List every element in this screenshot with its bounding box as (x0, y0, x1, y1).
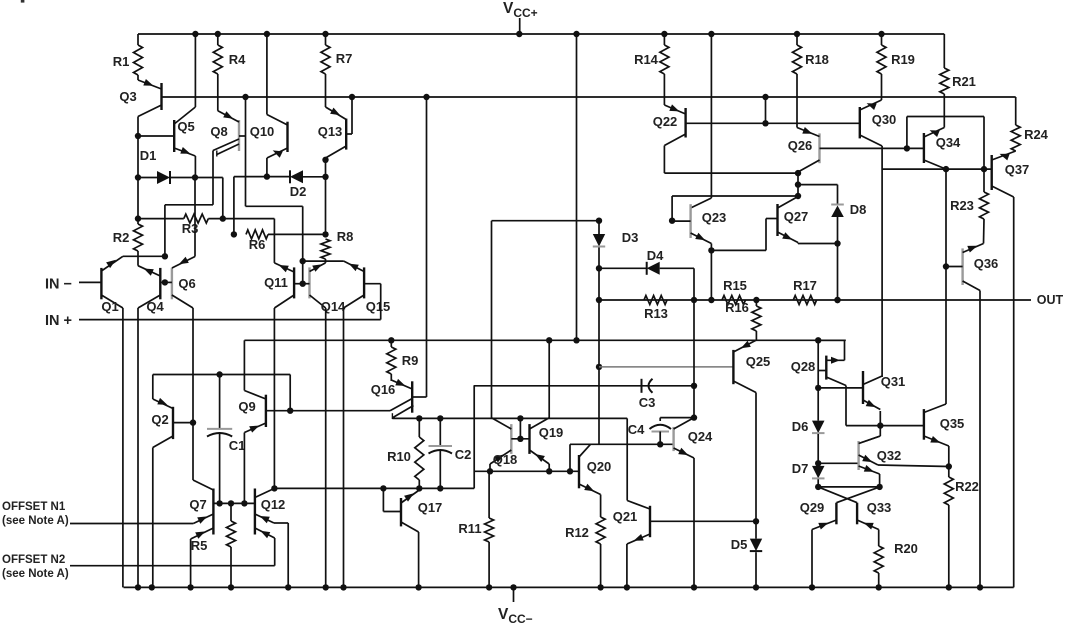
svg-text:C4: C4 (628, 422, 645, 437)
svg-text:R2: R2 (113, 230, 130, 245)
svg-text:R16: R16 (725, 300, 749, 315)
pin IN+ (45, 313, 381, 329)
transistor Q34 (907, 128, 961, 170)
node bottom rail junctions (135, 584, 983, 590)
transistor Q9 (238, 340, 266, 503)
svg-text:R18: R18 (805, 52, 829, 67)
svg-text:R23: R23 (950, 198, 974, 213)
node D6-D7 (815, 460, 821, 466)
wire VCC+ top rail (138, 33, 944, 35)
resistor R11 (458, 471, 493, 587)
transistor Q17 (380, 485, 442, 532)
wire Q13 collector column (322, 157, 328, 235)
diode D4 (599, 248, 694, 275)
wire Q18 emitter line (474, 468, 579, 474)
wire Q21 base to D5 node (650, 520, 757, 522)
svg-text:Q2: Q2 (151, 412, 168, 427)
wire Q24 base line (599, 443, 674, 445)
node D2 cathode (322, 174, 328, 180)
resistor R7 (321, 34, 352, 74)
svg-text:R14: R14 (634, 52, 659, 67)
svg-text:R12: R12 (565, 525, 589, 540)
transistor Q30 (860, 74, 896, 146)
svg-text:Q8: Q8 (210, 124, 227, 139)
wire Q26 base line (820, 147, 907, 149)
resistor R24 (1011, 97, 1048, 151)
wire Q11 collector (273, 308, 275, 488)
svg-text:Q25: Q25 (746, 354, 771, 369)
svg-text:Q16: Q16 (371, 382, 396, 397)
svg-text:R10: R10 (387, 449, 411, 464)
node D7 bottom (815, 484, 821, 490)
svg-text:Q20: Q20 (587, 459, 612, 474)
wire D4 corner to out line (693, 268, 695, 300)
wire Q8 collector jog to Q4-Q6 bases (165, 151, 213, 257)
resistor R23 (950, 169, 988, 243)
node D1 anode (135, 174, 141, 180)
svg-text:Q18: Q18 (493, 452, 518, 467)
transistor Q24 (674, 418, 713, 458)
transistor Q11 (264, 263, 294, 308)
svg-text:Q37: Q37 (1005, 162, 1030, 177)
transistor Q21 (613, 418, 650, 587)
transistor Q2 (151, 375, 173, 448)
wire Q23 emitter node (708, 244, 714, 301)
resistor R8 (321, 229, 353, 263)
transistor Q29 (800, 500, 837, 530)
diode D2 (234, 170, 326, 199)
node R17 right (834, 297, 840, 303)
wire Q37 base line (882, 166, 992, 172)
wire Q16 base to rail (426, 97, 428, 397)
resistor R18 (793, 34, 829, 74)
node top rail junctions (192, 31, 885, 37)
svg-text:Q31: Q31 (881, 374, 906, 389)
wire D2 branch to R6 (231, 177, 237, 238)
node Q11-Q14 bases (294, 258, 309, 287)
node Q36 base (943, 169, 949, 404)
wire Q27 base link (711, 219, 777, 251)
node Q11-Q12 collectors (271, 485, 277, 491)
svg-text:R4: R4 (229, 52, 246, 67)
node C1 bottom (216, 500, 222, 506)
node R2-R3 junction (135, 215, 141, 221)
diode D3 (593, 221, 639, 269)
transistor Q27 (778, 197, 809, 243)
svg-text:Q15: Q15 (366, 299, 391, 314)
svg-text:C3: C3 (639, 395, 656, 410)
wire Q36 collector (979, 291, 981, 588)
node D4 anode (596, 265, 602, 271)
node base rail junctions (242, 94, 768, 100)
wire D3 chain down (598, 268, 600, 444)
transistor Q32 dual emitter (818, 436, 949, 487)
transistor Q6 (172, 178, 196, 309)
pin OFFSET N1 (2, 501, 193, 527)
resistor R20 (874, 530, 918, 588)
node Q23 base (669, 196, 798, 224)
svg-text:Q22: Q22 (653, 114, 678, 129)
svg-text:C1: C1 (229, 438, 246, 453)
transistor Q36 (946, 244, 998, 291)
wire Q25 collector to D5 (753, 393, 759, 525)
svg-text:OFFSET N2: OFFSET N2 (2, 554, 65, 566)
wire Q28 collector to Q35 base (846, 386, 924, 426)
svg-text:Q12: Q12 (261, 497, 286, 512)
svg-text:R6: R6 (249, 237, 266, 252)
resistor R5 (191, 500, 236, 587)
svg-text:Q36: Q36 (974, 256, 999, 271)
svg-text:R11: R11 (458, 521, 481, 536)
svg-text:R13: R13 (644, 306, 668, 321)
svg-text:Q4: Q4 (146, 299, 164, 314)
transistor Q28 (791, 340, 846, 388)
transistor Q10 (250, 34, 288, 177)
node R13 left (596, 297, 602, 303)
svg-text:OUT: OUT (1037, 293, 1064, 307)
node R13 right (691, 297, 697, 303)
capacitor C2 (429, 415, 472, 488)
pin VCC+ (503, 0, 538, 34)
transistor Q5 (138, 34, 195, 178)
svg-text:R20: R20 (894, 541, 918, 556)
transistor Q18 (490, 418, 517, 472)
resistor R12 (565, 495, 605, 588)
svg-text:R21: R21 (952, 74, 976, 89)
node R22 top (946, 446, 952, 470)
svg-text:Q14: Q14 (321, 299, 346, 314)
transistor Q4 (138, 266, 164, 314)
wire cross couple lines (818, 484, 883, 503)
svg-text:D2: D2 (290, 184, 307, 199)
wire Q7 collector from Q6 (193, 423, 213, 490)
svg-text:R22: R22 (955, 479, 979, 494)
pin VCC- (498, 587, 533, 626)
transistor Q33 (857, 500, 891, 530)
transistor Q14 (310, 263, 347, 314)
wire main bias line (244, 339, 845, 341)
resistor R22 (944, 467, 979, 588)
node C3 line right (691, 300, 697, 389)
svg-text:D3: D3 (622, 230, 639, 245)
svg-text:Q7: Q7 (189, 497, 206, 512)
transistor Q35 (924, 404, 964, 446)
transistor Q20 (579, 444, 611, 494)
resistor R13 (644, 296, 668, 322)
svg-text:Q30: Q30 (872, 112, 897, 127)
svg-text:Q19: Q19 (539, 425, 564, 440)
wire VCC- bottom rail (124, 586, 1014, 588)
wire D1 to R3 (220, 178, 226, 222)
wire Q4 collector (137, 308, 139, 587)
svg-text:Q21: Q21 (613, 509, 638, 524)
node Q28-D6 (815, 385, 821, 391)
wire R3 to Q11 emitter (273, 219, 275, 263)
svg-text:Q13: Q13 (318, 124, 343, 139)
wire base rail (163, 96, 1016, 98)
svg-text:Q27: Q27 (784, 209, 809, 224)
svg-text:D8: D8 (850, 202, 867, 217)
svg-text:C2: C2 (455, 447, 472, 462)
svg-text:Q11: Q11 (264, 275, 288, 290)
svg-text:Q33: Q33 (867, 500, 892, 515)
svg-text:OFFSET N1: OFFSET N1 (2, 501, 66, 513)
wire Q8 base to rail and Q11 bases (246, 97, 303, 261)
pin IN- (45, 277, 101, 293)
wire R13 to Q24 collector (691, 386, 697, 421)
wire Q15 collector (343, 308, 345, 587)
svg-text:D1: D1 (140, 148, 157, 163)
svg-text:D7: D7 (792, 461, 809, 476)
svg-text:R24: R24 (1024, 127, 1049, 142)
resistor R14 (634, 34, 669, 74)
wire output resistor line (599, 299, 1031, 301)
svg-text:Q5: Q5 (177, 119, 194, 134)
svg-text:R17: R17 (793, 278, 817, 293)
wire Q3 collector column (137, 117, 139, 219)
wire Q18 collector column (491, 221, 493, 418)
svg-text:IN −: IN − (45, 277, 72, 293)
transistor Q7 dual emitter (189, 489, 213, 588)
diode D5 (731, 521, 763, 587)
wire C3 line (474, 385, 694, 387)
wire Q14 collector (325, 308, 327, 587)
svg-text:Q24: Q24 (688, 429, 713, 444)
resistor R19 (877, 34, 915, 74)
wire Q22-Q30 base line (686, 97, 860, 127)
node D8 bottom (834, 240, 840, 303)
wire mirror output to Q17 (274, 487, 474, 489)
node Q4-Q6 bases (160, 279, 172, 285)
node D1 cathode (192, 174, 198, 180)
resistor R3 (138, 214, 274, 236)
svg-text:Q23: Q23 (702, 210, 727, 225)
wire Q31 emitter to Q32 collector (859, 411, 884, 444)
svg-text:R19: R19 (891, 52, 915, 67)
svg-text:(see Note A): (see Note A) (2, 568, 69, 580)
wire Q25 base line (599, 366, 733, 368)
transistor Q12 dual emitter (255, 488, 288, 587)
svg-text:Q34: Q34 (936, 135, 961, 150)
node R15 left (708, 297, 714, 303)
node Q18-Q19 bases (511, 415, 529, 442)
wire Q1 collector (122, 308, 124, 587)
wire Q17 collector (418, 532, 420, 587)
resistor R6 (246, 230, 326, 252)
svg-text:D6: D6 (792, 419, 809, 434)
transistor Q15 (344, 261, 391, 314)
resistor R21 (940, 34, 976, 128)
svg-text:Q35: Q35 (940, 416, 965, 431)
wire Q23 collector to rail (691, 34, 712, 208)
wire Q2-C1-Q9 top link (153, 371, 290, 377)
svg-text:Q28: Q28 (791, 359, 816, 374)
transistor Q1 (101, 256, 123, 314)
svg-text:R1: R1 (113, 54, 130, 69)
svg-text:R8: R8 (337, 229, 354, 244)
svg-text:IN +: IN + (45, 313, 72, 329)
transistor Q22 (653, 74, 686, 146)
wire Q24 emitter (693, 458, 695, 587)
svg-text:R7: R7 (336, 51, 353, 66)
wire Q27 emitter to D8 bottom (798, 243, 838, 244)
wire Q2 collector (152, 448, 154, 588)
svg-text:D5: D5 (731, 537, 748, 552)
node R6-R8 junction (322, 231, 328, 237)
diode D8 (798, 185, 866, 244)
wire Q6 collector (192, 308, 194, 423)
transistor Q37 (992, 151, 1030, 197)
node Q9 emitter join (241, 500, 247, 506)
transistor Q8 with split collector (210, 74, 245, 157)
transistor Q16 split collector (290, 379, 426, 419)
capacitor C4 (628, 418, 694, 445)
wire Q1 emitter to bases node (123, 253, 168, 259)
svg-text:(see Note A): (see Note A) (2, 515, 69, 527)
svg-text:Q26: Q26 (788, 138, 813, 153)
node Q9 base (266, 375, 294, 414)
svg-text:VCC−: VCC− (498, 606, 533, 626)
resistor R16 (725, 300, 761, 340)
svg-text:VCC+: VCC+ (503, 0, 538, 20)
diode D6 (792, 388, 825, 463)
transistor Q26 (788, 74, 820, 172)
transistor Q3 (119, 75, 161, 117)
pin OUT (1037, 293, 1064, 307)
wire Q19 collector column (546, 337, 552, 418)
node Q3-Q5 base (135, 133, 141, 139)
resistor R17 (793, 278, 817, 305)
wire Q37 collector (1013, 197, 1015, 587)
pin OFFSET N2 (2, 554, 275, 580)
wire Q29 emitter (811, 530, 813, 588)
node bias to Q28 (815, 337, 821, 343)
wire Q18col to D3 top (492, 218, 603, 224)
svg-text:Q6: Q6 (178, 276, 195, 291)
svg-text:Q32: Q32 (877, 448, 902, 463)
resistor R9 (387, 337, 419, 381)
svg-text:Q1: Q1 (101, 299, 118, 314)
resistor R4 (213, 34, 246, 74)
svg-text:R15: R15 (723, 278, 747, 293)
transistor Q19 (530, 418, 564, 472)
svg-text:D4: D4 (647, 248, 664, 263)
node R10 C2 bottoms (416, 485, 443, 491)
wire Q20 base link (570, 444, 599, 471)
transistor Q31 (818, 371, 905, 410)
wire VCC+ feed column (573, 34, 579, 343)
svg-text:R9: R9 (402, 353, 419, 368)
wire mirror link vertical (473, 386, 475, 489)
resistor R1 (113, 34, 143, 75)
node R15 right (753, 297, 759, 303)
wire Q30-Q31 collector column (881, 146, 883, 377)
transistor Q13 (318, 74, 352, 158)
resistor R2 (113, 219, 143, 266)
svg-text:R5: R5 (191, 538, 208, 553)
node Q34 base (904, 117, 984, 170)
svg-text:Q10: Q10 (250, 124, 275, 139)
svg-text:Q17: Q17 (418, 500, 443, 515)
wire Q26 collector column (795, 170, 801, 199)
capacitor C3 (639, 379, 656, 410)
transistor Q23 (672, 204, 726, 243)
capacitor C1 (207, 375, 245, 504)
diode D7 (792, 461, 825, 487)
svg-text:Q9: Q9 (238, 399, 255, 414)
node Q25 base tap (596, 364, 602, 370)
wire Q7-Q12 base link (213, 502, 255, 504)
transistor Q25 (733, 340, 770, 392)
mark page corner (21, 0, 25, 3)
node Q2 base to Q6 collector (173, 419, 196, 425)
wire bias node to Q15 emitter (303, 260, 344, 262)
node C4 bottom (657, 441, 663, 447)
diode D1 (138, 148, 223, 184)
wire compensation line (392, 417, 627, 419)
svg-text:Q29: Q29 (800, 500, 825, 515)
wire Q15 base from IN+ (364, 284, 381, 320)
svg-text:Q3: Q3 (119, 89, 136, 104)
resistor R10 (387, 415, 424, 488)
wire Q22 collector (664, 146, 798, 174)
resistor R15 (722, 278, 747, 305)
